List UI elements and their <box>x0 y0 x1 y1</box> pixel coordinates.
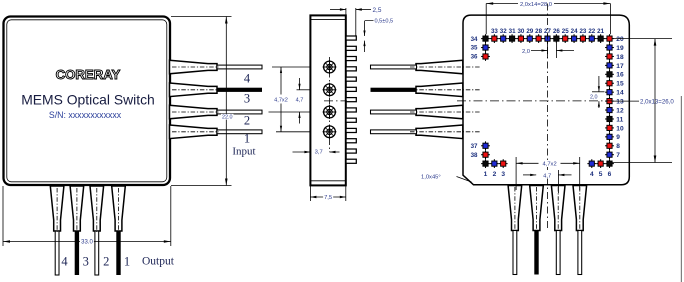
svg-text:14: 14 <box>616 90 624 97</box>
dimension 2,0 top <box>547 43 549 58</box>
pin 7 <box>605 150 614 159</box>
dimension 2,0x14=28,0 <box>486 3 518 5</box>
svg-text:4,7: 4,7 <box>543 173 551 179</box>
svg-text:35: 35 <box>471 45 478 52</box>
svg-text:36: 36 <box>471 54 478 61</box>
svg-text:22.0: 22.0 <box>222 114 233 120</box>
svg-text:4: 4 <box>590 171 594 178</box>
dimension 2,0x13=26,0 extension lines <box>612 38 672 40</box>
pin 9 <box>605 132 614 141</box>
pin 35 <box>481 43 490 52</box>
dimension 7,5 <box>309 186 311 201</box>
svg-text:20: 20 <box>616 36 624 43</box>
svg-text:2: 2 <box>103 255 109 269</box>
pin 14 <box>605 88 614 97</box>
pin 33 <box>490 34 499 43</box>
dimension 2,5 <box>345 8 347 15</box>
svg-text:32: 32 <box>500 28 507 35</box>
svg-text:33: 33 <box>491 28 498 35</box>
pin 17 <box>605 61 614 70</box>
pin 11 <box>605 115 614 124</box>
front view input fiber 1 pigtail <box>170 125 218 139</box>
pin 32 <box>499 34 508 43</box>
pin 22 <box>587 34 596 43</box>
dimension 2,0 right <box>592 91 605 93</box>
back view package outline <box>463 15 629 185</box>
svg-text:3,7: 3,7 <box>315 149 323 155</box>
svg-text:4: 4 <box>244 72 251 86</box>
side view vertical centerline <box>329 57 331 152</box>
svg-text:2: 2 <box>493 171 497 178</box>
back view fiber 4 pigtail <box>416 125 463 139</box>
dimension 4,7x2 vertical <box>280 67 282 95</box>
pin 30 <box>517 34 526 43</box>
svg-text:6: 6 <box>608 171 612 178</box>
front view package body <box>4 17 171 186</box>
svg-text:30: 30 <box>517 28 524 35</box>
pin 2 <box>490 159 499 168</box>
dimension 2,0x14=28,0 extension lines <box>485 4 487 35</box>
svg-text:15: 15 <box>616 81 624 88</box>
svg-text:S/N: xxxxxxxxxxxx: S/N: xxxxxxxxxxxx <box>49 110 122 120</box>
dimension 4,7 vertical <box>299 78 301 90</box>
svg-text:10: 10 <box>616 125 624 132</box>
svg-text:CORERAY: CORERAY <box>56 67 121 82</box>
pin 19 <box>605 43 614 52</box>
dimension 4,7x2 bottom <box>515 157 517 190</box>
pin 8 <box>605 141 614 150</box>
fiber row extension lines <box>272 66 310 68</box>
svg-text:21: 21 <box>597 28 604 35</box>
back view bottom fiber pigtail 3 <box>551 186 565 231</box>
svg-text:24: 24 <box>571 28 578 35</box>
svg-text:3: 3 <box>244 92 250 106</box>
pin 20 <box>605 34 614 43</box>
pin 38 <box>481 150 490 159</box>
dimension 4,7 bottom <box>557 170 559 193</box>
pin 15 <box>605 79 614 88</box>
svg-text:4,7: 4,7 <box>296 98 304 104</box>
back view vertical centerline <box>547 4 549 232</box>
dimension 3,7 <box>293 151 311 153</box>
pin 3 <box>499 159 508 168</box>
dimension 22.0 <box>225 17 227 186</box>
svg-text:7,5: 7,5 <box>324 195 332 201</box>
side view fiber ports <box>323 60 337 74</box>
pin 37 <box>481 141 490 150</box>
pin 4 <box>587 159 596 168</box>
svg-text:2,0x14=28,0: 2,0x14=28,0 <box>520 2 552 8</box>
svg-text:37: 37 <box>471 143 478 150</box>
svg-text:2,5: 2,5 <box>373 7 382 14</box>
svg-text:18: 18 <box>616 54 624 61</box>
svg-text:25: 25 <box>562 28 569 35</box>
back view fiber 2 pigtail <box>416 83 463 97</box>
svg-text:Input: Input <box>232 146 255 158</box>
svg-text:1: 1 <box>244 132 250 146</box>
front view input fiber 3 pigtail <box>170 83 218 97</box>
svg-text:12: 12 <box>616 107 624 114</box>
front view output fiber 2 pigtail <box>90 186 104 231</box>
svg-text:MEMS Optical Switch: MEMS Optical Switch <box>21 92 155 108</box>
svg-text:2: 2 <box>244 114 250 128</box>
svg-text:19: 19 <box>616 45 624 52</box>
svg-text:38: 38 <box>471 152 478 159</box>
pin 12 <box>605 106 614 115</box>
pin 5 <box>596 159 605 168</box>
pin 26 <box>552 34 561 43</box>
back view fiber 1 pigtail <box>416 60 463 74</box>
side view package body <box>310 15 345 185</box>
svg-text:2,0: 2,0 <box>522 49 530 55</box>
svg-text:7: 7 <box>616 152 620 159</box>
svg-text:Output: Output <box>142 256 175 268</box>
back view bottom fiber pigtail 1 <box>508 186 522 231</box>
svg-text:2,0: 2,0 <box>590 94 598 100</box>
svg-text:2,0x13=26,0: 2,0x13=26,0 <box>640 98 674 105</box>
pin 10 <box>605 124 614 133</box>
svg-text:31: 31 <box>509 28 516 35</box>
back view fiber 3 pigtail <box>416 105 463 119</box>
svg-text:13: 13 <box>616 99 624 106</box>
svg-text:3: 3 <box>501 171 505 178</box>
pin 28 <box>534 34 543 43</box>
svg-text:0,5±0,5: 0,5±0,5 <box>375 19 394 25</box>
svg-text:34: 34 <box>471 36 478 43</box>
svg-text:26: 26 <box>553 28 560 35</box>
svg-text:23: 23 <box>579 28 586 35</box>
pin 27 <box>543 34 552 43</box>
svg-text:3: 3 <box>83 255 89 269</box>
dimension 22.0 extension lines <box>171 16 232 18</box>
svg-text:28: 28 <box>535 28 542 35</box>
pin 23 <box>579 34 588 43</box>
pin 18 <box>605 52 614 61</box>
svg-text:16: 16 <box>616 72 624 79</box>
pin 13 <box>605 97 614 106</box>
pin 25 <box>561 34 570 43</box>
svg-text:1: 1 <box>484 171 488 178</box>
back view horizontal centerline <box>324 100 347 102</box>
pin 31 <box>508 34 517 43</box>
svg-text:22: 22 <box>588 28 595 35</box>
page frame fragment <box>680 96 682 282</box>
svg-text:1,0x45°: 1,0x45° <box>421 175 441 181</box>
pin 1 <box>481 159 490 168</box>
svg-text:4: 4 <box>61 255 68 269</box>
dimension 2,0x13=26,0 <box>654 39 656 163</box>
front view output fiber 4 pigtail <box>50 186 64 231</box>
pin 16 <box>605 70 614 79</box>
front view output fiber 3 pigtail <box>70 186 84 231</box>
svg-text:29: 29 <box>526 28 533 35</box>
pin 6 <box>605 159 614 168</box>
svg-text:17: 17 <box>616 63 624 70</box>
front view input fiber 2 pigtail <box>170 105 218 119</box>
svg-text:8: 8 <box>616 143 620 150</box>
svg-text:9: 9 <box>616 134 620 141</box>
dimension 33.0 <box>3 241 171 243</box>
side view pins <box>346 36 356 40</box>
svg-text:5: 5 <box>599 171 603 178</box>
svg-text:4,7x2: 4,7x2 <box>543 162 557 168</box>
pin 36 <box>481 52 490 61</box>
svg-text:1: 1 <box>124 255 130 269</box>
svg-text:33.0: 33.0 <box>81 240 93 246</box>
pin 24 <box>570 34 579 43</box>
back view bottom fiber pigtail 4 <box>573 186 587 231</box>
pin 29 <box>525 34 534 43</box>
dimension 33.0 extension lines <box>2 186 4 246</box>
svg-text:11: 11 <box>616 116 623 123</box>
pin 21 <box>596 34 605 43</box>
front view input fiber 4 pigtail <box>170 60 218 74</box>
front view output fiber 1 pigtail <box>112 186 126 231</box>
back view bottom fiber pigtail 2 <box>530 186 544 231</box>
svg-text:4,7x2: 4,7x2 <box>274 98 288 104</box>
pin 34 <box>481 34 490 43</box>
